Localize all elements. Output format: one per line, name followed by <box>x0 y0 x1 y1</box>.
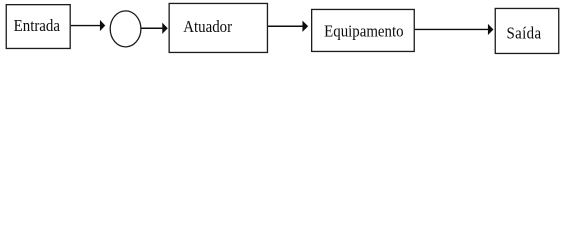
wire arrow Atuador to Equipamento <box>268 21 308 32</box>
svg-text:Equipamento: Equipamento <box>324 23 403 41</box>
block Atuador <box>169 3 267 52</box>
block Equipamento <box>312 9 415 51</box>
wire arrow Entrada to summing junction <box>71 20 105 31</box>
wire arrow summing junction to Atuador <box>141 23 168 34</box>
wire arrow Equipamento to Saída <box>415 24 494 35</box>
svg-text:Atuador: Atuador <box>183 18 232 36</box>
svg-text:Saída: Saída <box>506 25 541 43</box>
svg-text:Entrada: Entrada <box>14 17 60 35</box>
block Saída <box>495 8 559 53</box>
block Entrada <box>6 5 70 49</box>
summing junction circle <box>110 11 141 47</box>
